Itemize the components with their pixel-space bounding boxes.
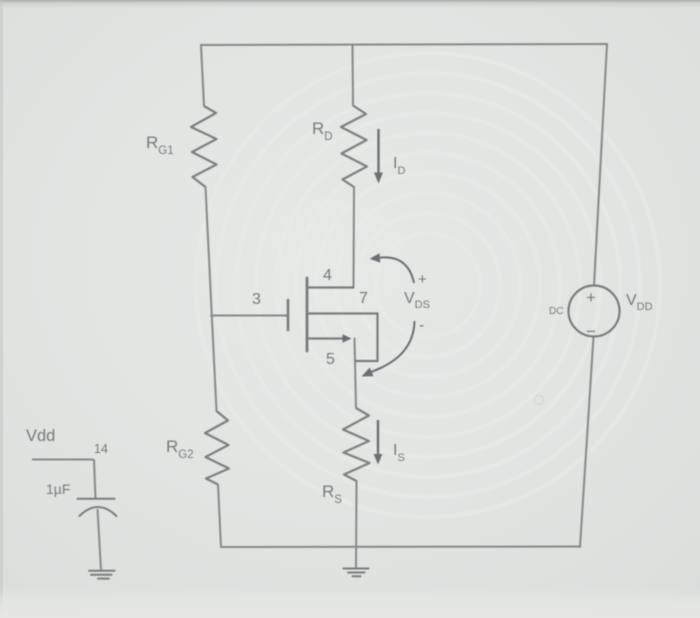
svg-text:-: - (419, 317, 424, 334)
wire RS to ground (355, 481, 358, 568)
wire top bus (201, 44, 607, 45)
svg-text:1µF: 1µF (46, 481, 70, 497)
channel bar (306, 278, 309, 351)
resistor RD (341, 106, 367, 188)
resistor RG2 (205, 411, 229, 485)
wire left branch middle (206, 187, 217, 411)
svg-text:5: 5 (326, 351, 335, 368)
wire cap to ground (98, 509, 102, 570)
wire left branch lower (218, 485, 221, 548)
transistor Q1 (288, 278, 378, 361)
resistor RG1 (191, 106, 217, 187)
annotation VDS (362, 253, 430, 376)
wire right branch lower (580, 337, 594, 548)
ground cap (89, 571, 115, 579)
VDS arrow top (377, 257, 414, 283)
source lead with arrow (307, 337, 344, 339)
svg-text:14: 14 (94, 442, 108, 456)
wire gate lead (211, 315, 287, 317)
svg-text:DC: DC (549, 306, 563, 317)
resistor RS (343, 408, 370, 481)
wire drain vertical (353, 187, 356, 288)
cap top plate (78, 498, 115, 500)
gate bar (287, 300, 290, 330)
svg-text:+: + (586, 288, 596, 307)
arrow ID (374, 129, 383, 184)
body lead and loop to source (307, 314, 378, 362)
arrow IS (374, 420, 383, 465)
svg-text:+: + (418, 271, 427, 288)
svg-text:Vdd: Vdd (26, 427, 55, 445)
source arrowhead (343, 334, 352, 342)
wire right branch upper (594, 44, 607, 286)
svg-text:3: 3 (252, 291, 261, 308)
smudge ring (534, 395, 543, 404)
VDS arrow bottom (371, 321, 415, 372)
svg-text:4: 4 (323, 267, 332, 284)
cap curved plate (79, 507, 116, 516)
capacitor C1 (78, 499, 117, 516)
drain lead (307, 286, 354, 288)
wire vdd horizontal (32, 459, 94, 461)
wire source vertical (355, 339, 357, 409)
svg-text:−: − (586, 322, 596, 341)
wire bottom bus (221, 546, 580, 549)
ground main (344, 569, 369, 577)
svg-text:7: 7 (359, 290, 368, 307)
wire left branch upper (201, 45, 204, 106)
wire RD drop (352, 45, 355, 106)
wire vdd vertical (94, 460, 96, 499)
source VDD (549, 286, 653, 342)
